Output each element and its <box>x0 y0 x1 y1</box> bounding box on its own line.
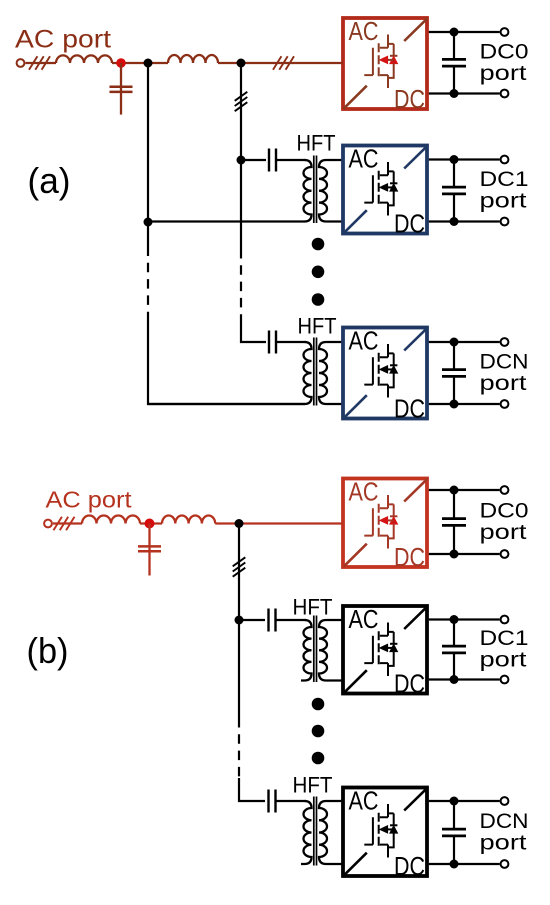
terminal DC1a negative <box>501 218 509 226</box>
wire HFT1 feed from bus (b) <box>239 619 265 621</box>
svg-text:port: port <box>480 61 527 85</box>
svg-text:HFT: HFT <box>297 131 336 156</box>
transformer HFT2b core <box>314 797 317 866</box>
svg-text:DC0: DC0 <box>480 499 529 523</box>
ellipsis dots between converters (a) <box>312 238 325 306</box>
svg-text:port: port <box>480 371 527 395</box>
UNa AC/DC (blue) diagonal top-right <box>404 328 427 351</box>
inductor La1 filter (a) <box>56 55 112 63</box>
U1b AC/DC (black) MOSFET with body diode <box>364 623 397 677</box>
phase marks /// on bus (b) <box>233 557 246 576</box>
terminal AC port (a) <box>17 59 25 67</box>
capacitor series HFT2 (b) <box>269 790 276 813</box>
U1b AC/DC (black) diagonal top-right <box>404 606 427 629</box>
wire inductor La1 to La2 (a) <box>112 62 168 64</box>
svg-text:DC1: DC1 <box>480 626 529 650</box>
wire DC1a DC+ output <box>429 158 500 160</box>
wire AC terminal to inductor (b) <box>53 522 82 524</box>
wire DC0b DC+ output <box>429 489 500 491</box>
wire DC1b DC+ output <box>429 618 500 620</box>
svg-text:AC port: AC port <box>15 26 111 54</box>
transformer HFT1b primary winding <box>301 620 312 681</box>
capacitor DC1b DC-link <box>442 620 466 680</box>
wire bus1 lower segment to corner (a) <box>148 320 305 405</box>
transformer HFT2a core <box>314 338 317 406</box>
wire bus2 to HFT2 feed corner (a) <box>241 322 266 342</box>
svg-text:port: port <box>480 189 527 213</box>
svg-text:DC: DC <box>394 394 425 424</box>
inductor La2 filter (a) <box>168 55 218 63</box>
svg-text:DC: DC <box>394 84 425 114</box>
wire bus2 dashed segment (a) <box>240 249 242 322</box>
svg-text:HFT: HFT <box>293 595 333 620</box>
UNb AC/DC (black) diagonal bottom-left <box>344 853 367 876</box>
wire DCNb DC- output <box>429 863 500 865</box>
capacitor DC1a DC-link <box>442 160 466 222</box>
capacitor DC0b DC-link <box>442 490 466 554</box>
inductor Lb1 filter (b) <box>82 516 140 524</box>
wire DC0b DC- output <box>429 553 500 555</box>
wire HFT2a primary return to bus <box>148 403 305 405</box>
capacitor series HFT2 (a) <box>269 331 276 354</box>
U0b AC/DC (red) diagonal bottom-left <box>344 544 367 567</box>
wire DCNa DC+ output <box>429 341 500 343</box>
label DCN port <box>480 350 529 395</box>
node bus1 / HFT1 return junction (a) <box>144 218 153 227</box>
UNb AC/DC (black) diagonal top-right <box>404 788 427 811</box>
capacitor DC0a DC-link <box>442 32 466 94</box>
svg-text:DC: DC <box>394 669 425 699</box>
node DC1b positive junction <box>450 615 459 624</box>
wire bus middle segment (b) <box>238 620 240 718</box>
label DC0 port <box>480 499 529 544</box>
node DC0a positive junction <box>450 28 459 37</box>
svg-text:HFT: HFT <box>293 773 333 798</box>
U1b AC/DC (black) diagonal bottom-left <box>344 670 367 693</box>
svg-text:port: port <box>480 831 527 855</box>
svg-text:DC: DC <box>394 542 425 572</box>
terminal DC0a positive <box>501 28 509 36</box>
node DCNb negative junction <box>450 860 459 869</box>
svg-text:AC: AC <box>349 16 379 46</box>
svg-text:port: port <box>480 520 527 544</box>
svg-text:DC: DC <box>394 851 425 881</box>
transformer HFT1a primary winding <box>304 160 312 222</box>
wire bus1 dashed segment (a) <box>147 247 149 320</box>
svg-text:AC: AC <box>349 325 379 355</box>
node DCNa positive junction <box>450 338 459 347</box>
converter block U0a AC/DC (red): box outline <box>343 18 427 109</box>
capacitor Ca filter shunt (a) <box>110 63 133 115</box>
wire AC input to U0a (a) <box>342 62 343 64</box>
svg-text:DC1: DC1 <box>480 167 529 191</box>
node DC1b negative junction <box>450 675 459 684</box>
wire vertical bus 1 upper segment (a) <box>147 63 149 222</box>
node DC0a negative junction <box>450 89 459 98</box>
transformer HFT2b primary winding <box>301 801 312 864</box>
node DC1a positive junction <box>450 155 459 164</box>
svg-text:DCN: DCN <box>480 809 529 833</box>
svg-text:(a): (a) <box>28 160 71 201</box>
label DCN port <box>480 809 529 854</box>
capacitor DCNa DC-link <box>442 342 466 404</box>
U1a AC/DC (blue) MOSFET with body diode <box>364 162 397 216</box>
wire La2 to converter U0a (a) <box>218 62 342 64</box>
node AC bus tap (b) <box>235 519 244 528</box>
wire HFT1a primary return to bus <box>148 220 305 222</box>
wire bus to HFT2 feed corner (b) <box>239 778 265 801</box>
wire DC0a DC+ output <box>429 31 500 33</box>
node DCNa negative junction <box>450 400 459 409</box>
svg-text:port: port <box>480 648 527 672</box>
UNb AC/DC (black) MOSFET with body diode <box>364 804 397 858</box>
svg-text:DC0: DC0 <box>480 39 529 63</box>
converter block UNb AC/DC (black): box outline <box>343 788 427 877</box>
converter block U1b AC/DC (black): box outline <box>343 606 427 694</box>
svg-text:HFT: HFT <box>298 314 337 339</box>
wire DCNb DC+ output <box>429 800 500 802</box>
wire AC terminal to inductor (a) <box>25 62 56 64</box>
terminal DCNb negative <box>501 860 509 868</box>
label DC1 port <box>480 626 529 671</box>
wire DCNa DC- output <box>429 403 500 405</box>
wire bus1 below junction (a) <box>147 222 149 247</box>
node HFT1 feed junction (b) <box>235 616 244 625</box>
transformer HFT1a secondary winding <box>319 160 342 222</box>
wire vertical bus 2 upper segment (a) <box>240 63 242 160</box>
converter block UNa AC/DC (blue): box outline <box>343 328 427 419</box>
wire series cap to HFT2 primary (a) <box>277 341 306 343</box>
U1a AC/DC (blue) diagonal bottom-left <box>344 210 367 233</box>
node AC bus tap 2 (a) <box>237 59 246 68</box>
transformer HFT2a primary winding <box>304 342 312 404</box>
terminal DCNb positive <box>501 797 509 805</box>
node DCNb positive junction <box>450 797 459 806</box>
converter block U1a AC/DC (blue): box outline <box>343 146 427 234</box>
node DC1a negative junction <box>450 217 459 226</box>
wire inductor Lb1 to Lb2 (b) <box>140 522 162 524</box>
svg-text:DCN: DCN <box>480 350 529 374</box>
wire DC1a DC- output <box>429 220 500 222</box>
wire series cap to HFT1 primary (b) <box>276 619 306 621</box>
wire vertical bus upper segment (b) <box>238 524 240 621</box>
capacitor Cb filter shunt (b) <box>138 524 161 576</box>
capacitor series HFT1 (b) <box>269 609 276 632</box>
transformer HFT1b core <box>314 616 317 683</box>
wire bus dashed segment (b) <box>238 718 240 778</box>
phase marks /// on AC line (a) <box>29 56 50 70</box>
label DC1 port <box>480 167 529 212</box>
capacitor DCNb DC-link <box>442 801 466 864</box>
wire AC input to U0b (b) <box>342 522 343 524</box>
ellipsis dots between converters (b) <box>312 698 325 765</box>
phase marks /// on bus2 (a) <box>235 92 248 111</box>
U0a AC/DC (red) diagonal top-right <box>404 18 427 41</box>
node filter-cap junction (a) <box>116 58 126 68</box>
wire HFT1 feed from bus2 (a) <box>241 159 266 161</box>
U0a AC/DC (red) MOSFET with body diode <box>364 35 397 89</box>
svg-text:AC: AC <box>349 143 379 173</box>
terminal DC0a negative <box>501 90 509 98</box>
svg-text:(b): (b) <box>27 630 69 671</box>
node AC bus tap 1 (a) <box>144 59 153 68</box>
wire DC0a DC- output <box>429 92 500 94</box>
node filter-cap junction (b) <box>145 519 155 529</box>
node bus2 / HFT1 feed junction (a) <box>237 156 246 165</box>
svg-text:AC port: AC port <box>46 487 133 513</box>
terminal DCNa negative <box>501 400 509 408</box>
U0b AC/DC (red) diagonal top-right <box>404 479 427 502</box>
terminal DCNa positive <box>501 338 509 346</box>
capacitor series HFT1 (a) <box>269 149 276 172</box>
phase marks /// before U0a (a) <box>273 56 294 70</box>
svg-text:AC: AC <box>349 785 379 815</box>
svg-text:AC: AC <box>349 476 379 506</box>
wire bus2 middle segment (a) <box>240 160 242 249</box>
terminal DC1b negative <box>501 676 509 684</box>
label DC0 port <box>480 39 529 84</box>
wire series cap to HFT2 primary (b) <box>276 800 306 802</box>
transformer HFT2b secondary winding <box>319 801 342 864</box>
UNa AC/DC (blue) diagonal bottom-left <box>344 395 367 418</box>
phase marks /// on AC line (b) <box>54 517 75 531</box>
terminal DC1a positive <box>501 156 509 164</box>
terminal AC port (b) <box>44 520 52 528</box>
U0b AC/DC (red) MOSFET with body diode <box>364 495 397 549</box>
transformer HFT1b secondary winding <box>319 620 342 681</box>
UNa AC/DC (blue) MOSFET with body diode <box>364 344 397 398</box>
node DC0b negative junction <box>450 550 459 559</box>
node DC0b positive junction <box>450 486 459 495</box>
svg-text:DC: DC <box>394 209 425 239</box>
terminal DC1b positive <box>501 616 509 624</box>
terminal DC0b positive <box>501 486 509 494</box>
wire Lb2 to converter U0b (b) <box>215 522 341 524</box>
wire series cap to HFT1 primary (a) <box>277 159 306 161</box>
terminal DC0b negative <box>501 550 509 558</box>
transformer HFT2a secondary winding <box>319 342 342 404</box>
wire DC1b DC- output <box>429 678 500 680</box>
transformer HFT1a core <box>314 156 317 224</box>
inductor Lb2 filter (b) <box>162 516 215 524</box>
svg-text:AC: AC <box>349 604 379 634</box>
U1a AC/DC (blue) diagonal top-right <box>404 146 427 169</box>
U0a AC/DC (red) diagonal bottom-left <box>344 86 367 109</box>
converter block U0b AC/DC (red): box outline <box>343 479 427 568</box>
